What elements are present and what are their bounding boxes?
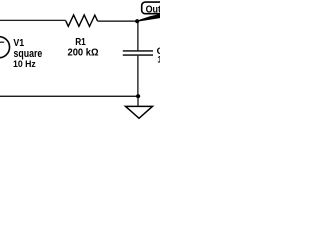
wire capacitor to bottom junction <box>137 56 139 96</box>
capacitor C1 top plate <box>123 50 153 52</box>
wire top-right (resistor to node) <box>98 20 138 22</box>
bottom junction dot <box>136 94 140 98</box>
bottom wire <box>0 95 138 97</box>
capacitor C1 bottom plate <box>123 54 153 56</box>
svg-text:200 kΩ: 200 kΩ <box>68 47 99 58</box>
svg-text:Out: Out <box>146 5 160 16</box>
wire node to capacitor <box>137 21 139 50</box>
resistor R1 <box>66 15 98 27</box>
Out flag box <box>142 2 169 14</box>
ground symbol <box>126 106 153 118</box>
square-wave glyph inside V1 <box>0 42 4 49</box>
Out flag pointer <box>137 13 164 22</box>
node junction dot (Out node) <box>135 19 139 23</box>
voltage source V1 <box>0 37 10 58</box>
svg-text:10 Hz: 10 Hz <box>13 59 36 70</box>
svg-text:100n: 100n <box>157 55 160 66</box>
wire top-left (source to resistor) <box>0 19 66 21</box>
ground lead <box>137 96 139 106</box>
